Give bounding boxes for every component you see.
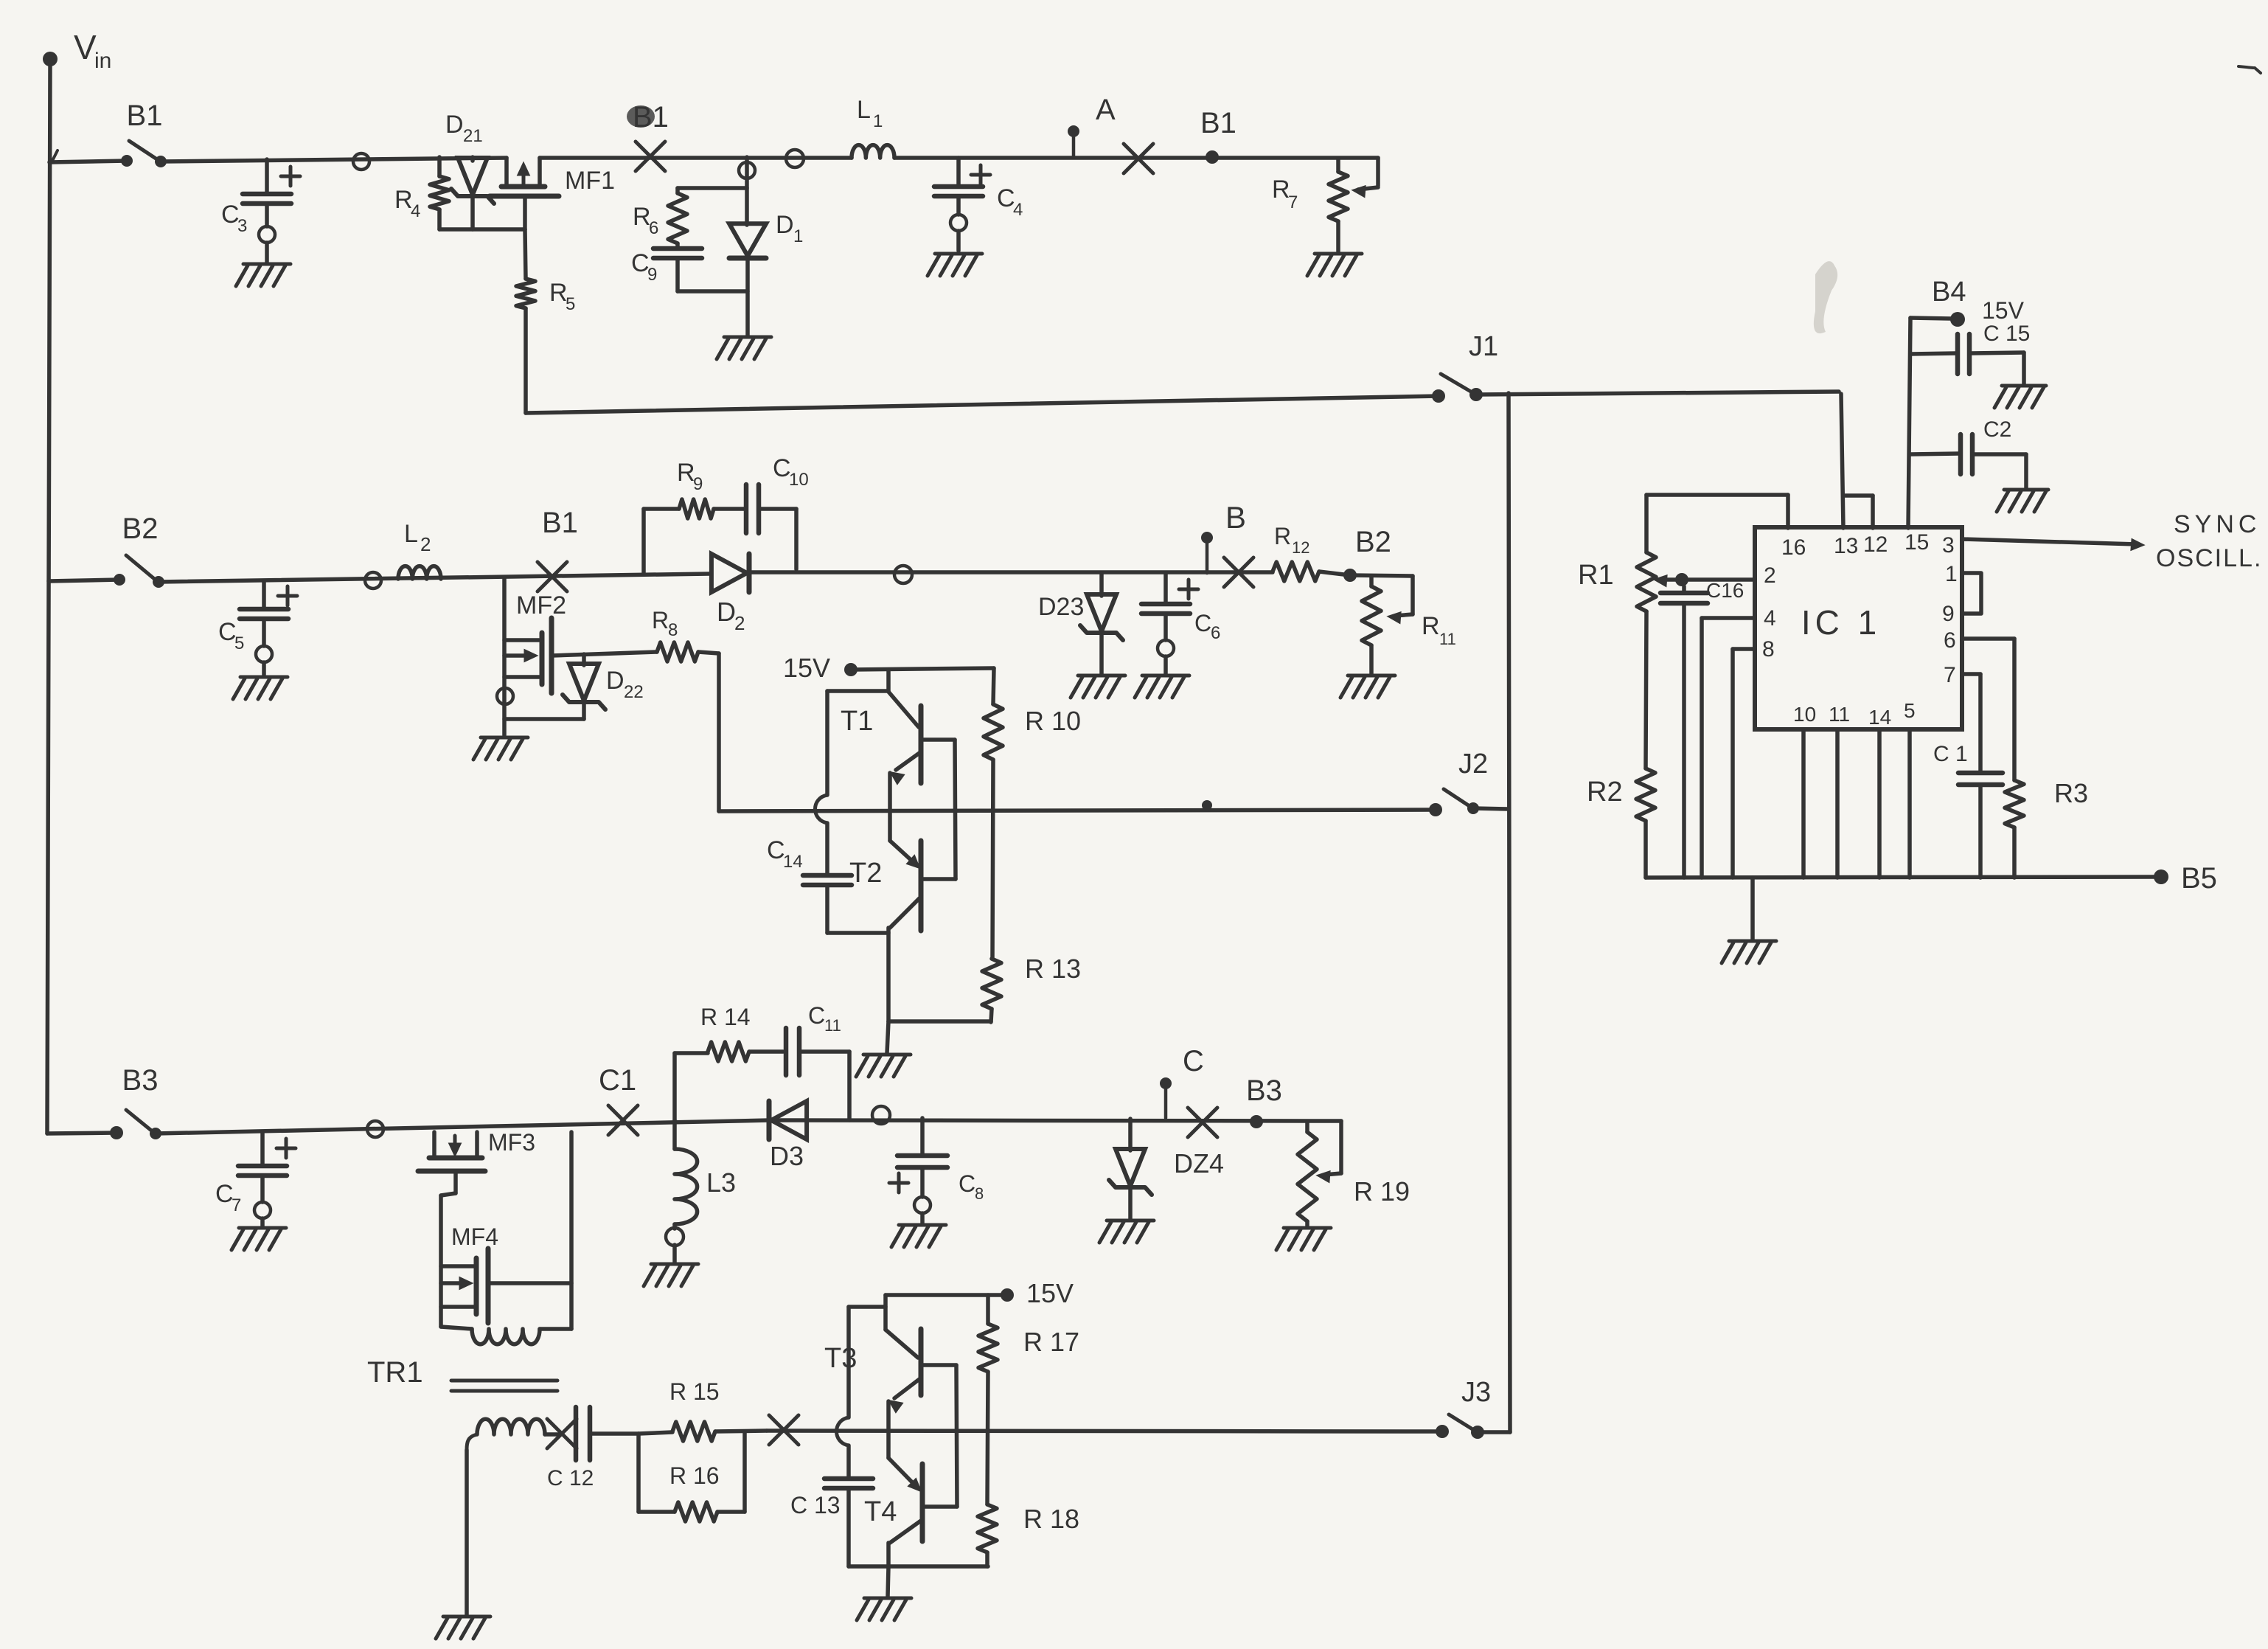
svg-text:R: R [633, 203, 651, 231]
svg-text:4: 4 [411, 201, 420, 221]
wire row1 bottom to J1 [526, 396, 1439, 413]
wire MF3 source down [569, 1132, 574, 1329]
wire 15V rail row2 [851, 668, 994, 670]
wire row3 base line to J3 [767, 1431, 1436, 1431]
capacitor C7 [215, 1133, 296, 1226]
svg-text:1: 1 [873, 111, 883, 131]
svg-text:D23: D23 [1038, 593, 1084, 621]
resistor R3 [2005, 778, 2088, 878]
wire junction to D1 node [745, 157, 749, 178]
wire B2 switch to D2 [159, 574, 709, 582]
resistor R2 [1587, 611, 1655, 878]
svg-text:C: C [959, 1170, 975, 1197]
capacitor C4 [934, 158, 1023, 251]
capacitor C12 [547, 1407, 639, 1490]
wire D2 to B2 out [750, 570, 1273, 574]
node X secondary [547, 1419, 577, 1448]
resistor R10 [984, 668, 1081, 959]
wire pins 1-9 bracket [1962, 573, 1981, 614]
ground under C6 [1135, 676, 1189, 698]
potentiometer R19 [1298, 1122, 1410, 1226]
ground under DZ4 [1099, 1221, 1154, 1243]
svg-text:V: V [74, 28, 97, 66]
svg-text:8: 8 [668, 620, 678, 640]
svg-text:R1: R1 [1578, 560, 1614, 591]
node circle under C4 [950, 215, 967, 231]
svg-text:R: R [1272, 176, 1290, 204]
transformer TR1 label [367, 1356, 423, 1389]
diode D2 [712, 554, 749, 634]
svg-text:DZ4: DZ4 [1174, 1148, 1224, 1178]
ground under L3 [644, 1264, 698, 1286]
wire pin4 down [1702, 618, 1755, 878]
ground under D23 [1071, 676, 1125, 698]
svg-text:7: 7 [1944, 663, 1956, 687]
svg-text:C: C [1194, 610, 1211, 636]
ground under T2 [856, 1021, 911, 1077]
wire wiper to pin2 [1682, 577, 1755, 582]
node X before B3 dot [1188, 1108, 1217, 1137]
wire T1/T2 emitters [888, 773, 892, 841]
resistor R8 [652, 607, 698, 662]
node circle row2-b [894, 566, 912, 583]
node X before R12 [1224, 558, 1253, 587]
node A [1068, 94, 1116, 158]
svg-text:R 10: R 10 [1025, 706, 1081, 736]
node B5 [2154, 862, 2217, 895]
stray pen mark [2239, 66, 2261, 73]
capacitor C3 [221, 159, 300, 263]
svg-text:R 19: R 19 [1354, 1176, 1410, 1207]
capacitor C10 [746, 454, 809, 569]
potentiometer R11 [1362, 576, 1456, 674]
svg-text:C 13: C 13 [790, 1492, 841, 1518]
diode D3 [769, 1101, 807, 1171]
ground under MF2 [473, 737, 528, 760]
ground under R19 [1276, 1228, 1331, 1250]
node C1 X [599, 1064, 638, 1135]
pin 12 label [1863, 532, 1888, 557]
resistor R4 [394, 157, 449, 229]
svg-text:R: R [677, 459, 695, 487]
resistor R18 [978, 1504, 1079, 1566]
resistor R5 [516, 229, 575, 413]
wire pin6 down [1962, 639, 2014, 780]
svg-text:C 1: C 1 [1933, 742, 1968, 766]
wire Vin vertical rail [47, 65, 50, 1134]
node circle under C6 [1158, 640, 1174, 656]
node B1 row2 X [538, 507, 578, 591]
svg-text:R: R [1422, 612, 1440, 640]
pin 14 label [1868, 706, 1891, 729]
wire B3 switch to D3 [156, 1120, 770, 1134]
wire pin10 down [1801, 729, 1806, 878]
svg-text:T2: T2 [849, 858, 882, 889]
ground TR1 secondary [436, 1617, 490, 1639]
capacitor C14 [767, 691, 852, 933]
svg-text:R3: R3 [2054, 778, 2088, 808]
transistor T1 [841, 670, 955, 783]
pin 6 label [1944, 628, 1956, 653]
pin 11 label [1829, 703, 1850, 726]
svg-text:4: 4 [1764, 606, 1776, 631]
inductor L3 [675, 1120, 736, 1263]
pin 13 label [1834, 534, 1858, 558]
node R1 wiper dot [1675, 573, 1688, 586]
wire R6 top link [678, 186, 747, 190]
svg-text:B1: B1 [127, 100, 163, 132]
svg-text:MF2: MF2 [516, 591, 566, 619]
smudge artifact [1814, 261, 1837, 333]
transistor T2 [849, 841, 956, 1021]
node circle row1-b [786, 150, 804, 167]
svg-text:10: 10 [1793, 703, 1816, 726]
svg-text:8: 8 [1762, 637, 1775, 662]
svg-text:MF1: MF1 [565, 167, 615, 195]
node B1 right dot [1206, 150, 1219, 164]
svg-text:14: 14 [1868, 706, 1891, 729]
resistor R9 [644, 459, 745, 574]
svg-text:4: 4 [1013, 200, 1023, 220]
svg-text:C: C [221, 201, 240, 229]
svg-text:2: 2 [420, 533, 431, 555]
svg-text:R: R [549, 279, 568, 307]
transistor T3 [824, 1295, 956, 1412]
svg-text:B2: B2 [122, 513, 159, 545]
node B4 [1910, 277, 2025, 327]
svg-text:R2: R2 [1587, 777, 1623, 808]
wire C13 top link [849, 1305, 886, 1309]
node C [1160, 1045, 1204, 1118]
svg-text:5: 5 [1904, 699, 1916, 722]
svg-text:L: L [404, 520, 418, 548]
svg-text:14: 14 [783, 852, 803, 872]
svg-text:D: D [717, 597, 736, 627]
svg-text:15: 15 [1905, 530, 1929, 555]
node circle under C7 [254, 1202, 271, 1218]
wire pin12 jog [1845, 496, 1873, 528]
inductor L2 [398, 520, 441, 579]
wire T4 bottom link [849, 1564, 988, 1569]
wire T2 bottom link [888, 1019, 991, 1024]
pin 10 label [1793, 703, 1816, 726]
svg-text:12: 12 [1863, 532, 1888, 557]
svg-text:3: 3 [1942, 533, 1955, 558]
wire C14 top link [827, 689, 888, 693]
svg-text:11: 11 [1829, 703, 1850, 726]
wire pin16 to R1 [1646, 495, 1788, 552]
svg-text:R 13: R 13 [1025, 954, 1081, 984]
node circle under C5 [256, 646, 272, 662]
svg-text:6: 6 [649, 218, 658, 238]
capacitor C11 [749, 1002, 849, 1120]
wire R8 to driver line [698, 652, 719, 811]
resistor R17 [978, 1295, 1079, 1504]
svg-text:C 12: C 12 [547, 1466, 594, 1490]
wire to R19 wiper [1318, 1121, 1341, 1181]
wire J1 to IC pin13 [1476, 392, 1843, 528]
ground under C15 [1994, 386, 2046, 408]
svg-text:C: C [215, 1180, 234, 1208]
node circle under L3 [666, 1228, 683, 1246]
ground IC bus [1722, 878, 1776, 963]
resistor R13 [982, 954, 1081, 1022]
wire MF3 gate to MF4 [441, 1171, 456, 1327]
wire MF4 gate link [488, 1281, 571, 1285]
svg-text:5: 5 [234, 633, 244, 653]
svg-text:C: C [631, 249, 650, 277]
svg-text:3: 3 [237, 216, 247, 236]
svg-text:T3: T3 [824, 1343, 857, 1374]
svg-text:C16: C16 [1706, 579, 1744, 602]
capacitor C15 [1910, 322, 2030, 384]
wire 15V rail row3 [886, 1293, 1001, 1297]
diode D1 [729, 211, 803, 336]
svg-text:2: 2 [1764, 563, 1776, 588]
svg-text:6: 6 [1211, 623, 1220, 643]
svg-text:C 15: C 15 [1983, 322, 2030, 346]
wire MF1 gate bottom link [439, 227, 525, 232]
svg-text:IC 1: IC 1 [1801, 603, 1881, 642]
transformer TR1 primary [441, 1327, 571, 1344]
pin 1 label [1945, 562, 1958, 586]
svg-text:L: L [857, 96, 871, 124]
pin 5 label [1904, 699, 1916, 722]
svg-text:C: C [1183, 1045, 1204, 1077]
transistor T4 [864, 1458, 957, 1566]
switch B2 [114, 513, 164, 588]
svg-text:11: 11 [824, 1016, 841, 1035]
wire R6/C9 bottom link [678, 289, 748, 294]
ground under R11 [1340, 676, 1395, 698]
resistor R15 [639, 1378, 767, 1441]
svg-text:D: D [606, 667, 625, 695]
svg-text:OSCILL.: OSCILL. [2156, 544, 2262, 572]
svg-text:SYNC: SYNC [2174, 510, 2261, 538]
ground under C8 [891, 1225, 946, 1247]
svg-text:C1: C1 [599, 1064, 636, 1097]
capacitor C6 [1141, 573, 1220, 674]
svg-text:B3: B3 [122, 1064, 159, 1097]
wire pin5 down [1907, 729, 1912, 878]
svg-text:C: C [997, 184, 1015, 212]
resistor R12 [1273, 523, 1319, 581]
switch J1 [1432, 331, 1498, 403]
wire B5 ground bus [1646, 877, 2161, 878]
ground under C3 [236, 264, 291, 286]
potentiometer R1 [1578, 552, 1682, 611]
capacitor C9 [631, 249, 702, 291]
svg-text:B4: B4 [1932, 277, 1966, 308]
svg-text:MF4: MF4 [451, 1223, 498, 1250]
wire J branch vertical [1509, 393, 1510, 1432]
ground under C5 [233, 677, 288, 699]
wire to R7 [1354, 158, 1378, 196]
wire pin15 vertical [1908, 318, 1910, 528]
svg-text:9: 9 [647, 265, 657, 285]
svg-text:15V: 15V [1026, 1278, 1074, 1308]
svg-text:9: 9 [1942, 602, 1955, 626]
wire D1 node down [745, 178, 749, 225]
resistor R14 [675, 1004, 751, 1120]
svg-text:13: 13 [1834, 534, 1858, 558]
wire pin3 SYNC output [1962, 510, 2262, 572]
inductor L1 [852, 96, 894, 158]
zener diode DZ4 [1109, 1119, 1224, 1219]
svg-text:1: 1 [793, 226, 803, 246]
svg-text:A: A [1096, 94, 1116, 126]
node B1 mid X [627, 101, 669, 171]
node circle row2-a [365, 572, 381, 589]
svg-text:8: 8 [975, 1184, 984, 1203]
svg-text:J1: J1 [1469, 331, 1498, 362]
svg-text:C: C [767, 836, 785, 864]
svg-text:R 16: R 16 [669, 1462, 720, 1489]
ground under D1 [717, 337, 771, 359]
wire Vin to B1 switch [49, 150, 127, 162]
wire T1/T2 bases vertical [955, 740, 956, 879]
wire pin7 down [1962, 674, 1980, 773]
svg-text:D: D [776, 211, 794, 239]
svg-text:21: 21 [463, 126, 483, 146]
svg-text:D3: D3 [770, 1141, 804, 1171]
transistor MF4 (MOSFET) [441, 1223, 498, 1323]
capacitor C5 [218, 581, 297, 676]
svg-text:R 14: R 14 [700, 1004, 751, 1030]
transformer TR1 secondary [467, 1419, 558, 1615]
svg-text:11: 11 [1439, 630, 1456, 648]
node 15V row2 [783, 653, 858, 683]
svg-text:R 15: R 15 [669, 1378, 720, 1405]
svg-text:16: 16 [1781, 535, 1806, 560]
svg-text:C: C [218, 618, 237, 646]
resistor R16 [639, 1432, 745, 1521]
wire B2 to R11 wiper [1319, 572, 1413, 622]
svg-text:B2: B2 [1355, 526, 1391, 558]
svg-text:2: 2 [734, 612, 745, 634]
wire pin11 down [1835, 729, 1840, 878]
switch B3 [47, 1064, 161, 1139]
pin 8 label [1762, 637, 1775, 662]
pin 16 label [1781, 535, 1806, 560]
svg-text:J2: J2 [1458, 749, 1488, 780]
ground under C7 [232, 1228, 286, 1250]
svg-text:15V: 15V [783, 653, 830, 683]
svg-text:J3: J3 [1461, 1377, 1491, 1408]
svg-text:MF3: MF3 [488, 1129, 535, 1156]
svg-text:R: R [1274, 523, 1291, 549]
node circle under C3 [259, 226, 275, 243]
node B2 dot [1343, 526, 1391, 582]
zener diode D23 [1038, 574, 1123, 674]
svg-text:7: 7 [232, 1195, 241, 1215]
wire MF2 gate to R8 [552, 652, 657, 656]
node 15V row3 [1001, 1278, 1074, 1308]
svg-text:R: R [394, 186, 413, 214]
node dot on J2 line [1202, 800, 1212, 810]
wire row2 base line to J2 [719, 810, 1436, 811]
svg-text:C: C [773, 454, 791, 482]
node B [1201, 500, 1246, 573]
svg-text:B1: B1 [542, 507, 578, 539]
svg-text:R 18: R 18 [1023, 1504, 1079, 1534]
svg-text:9: 9 [693, 474, 703, 494]
node circle above D1 [739, 162, 755, 178]
svg-text:5: 5 [566, 294, 575, 314]
pin 3 label [1942, 533, 1955, 558]
svg-text:B: B [1225, 500, 1246, 535]
wire L1 to B1 right [894, 156, 1378, 160]
svg-text:10: 10 [789, 470, 809, 490]
svg-text:T1: T1 [841, 706, 873, 737]
transistor MF1 (MOSFET) [490, 158, 615, 229]
potentiometer R7 [1272, 159, 1348, 252]
svg-text:1: 1 [1945, 562, 1958, 586]
svg-text:D: D [445, 111, 464, 139]
wire C14 bottom link [827, 931, 888, 935]
node B3 dot [1246, 1075, 1282, 1128]
svg-text:6: 6 [1944, 628, 1956, 653]
svg-text:C2: C2 [1983, 417, 2011, 442]
transformer TR1 core [451, 1381, 557, 1391]
op-amp U1 IC1 box [1755, 527, 1962, 729]
pin 15 label [1905, 530, 1929, 555]
svg-text:7: 7 [1288, 192, 1298, 212]
pin 2 label [1764, 563, 1776, 588]
switch J2 [1429, 749, 1509, 816]
wire to L1 [540, 156, 852, 160]
ground under C4 [928, 254, 982, 276]
svg-text:12: 12 [1292, 538, 1309, 557]
node Vin [43, 28, 111, 73]
switch B1 [121, 100, 167, 167]
node circle row1-a [353, 153, 369, 170]
node circle MF2 source [497, 688, 513, 704]
resistor R6 [633, 188, 687, 249]
svg-text:15V: 15V [1982, 297, 2025, 324]
node circle row3-b [872, 1106, 890, 1124]
zener diode D22 [563, 654, 644, 719]
svg-text:L3: L3 [706, 1167, 736, 1198]
svg-text:B5: B5 [2181, 862, 2217, 895]
ground under C2 [1997, 490, 2048, 512]
capacitor C13 [790, 1307, 873, 1566]
capacitor C8 [889, 1118, 984, 1223]
capacitor C1 [1933, 742, 2003, 878]
capacitor C2 [1910, 417, 2026, 488]
pin 7 label [1944, 663, 1956, 687]
node circle under C8 [914, 1197, 930, 1213]
wire T3/T4 bases vertical [956, 1365, 957, 1507]
zener diode D21 [445, 111, 494, 229]
node circle row3-a [367, 1121, 383, 1137]
svg-text:R: R [652, 607, 669, 633]
wire T3/T4 emitters [886, 1401, 891, 1458]
svg-text:22: 22 [624, 682, 644, 702]
svg-text:B3: B3 [1246, 1075, 1282, 1107]
switch J3 [1436, 1377, 1510, 1439]
svg-text:B1: B1 [1200, 107, 1236, 139]
ground under R7 [1307, 254, 1362, 276]
wire B1 switch to MF1 [161, 158, 507, 162]
ground under T4 [857, 1566, 911, 1620]
wire pin8 down [1733, 649, 1755, 878]
svg-text:R 17: R 17 [1023, 1327, 1079, 1357]
svg-text:T4: T4 [864, 1496, 897, 1527]
svg-text:in: in [94, 49, 111, 73]
pin 9 label [1942, 602, 1955, 626]
transistor MF3 (MOSFET) [418, 1129, 535, 1171]
